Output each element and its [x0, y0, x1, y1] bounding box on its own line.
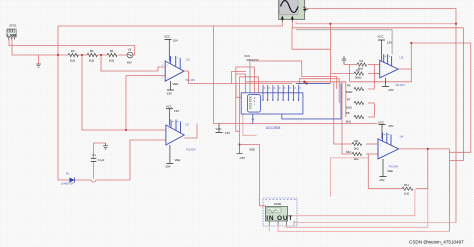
svg-text:1N4007GP: 1N4007GP [61, 182, 74, 186]
wire: scope T line [296, 22, 456, 24]
node right vertical junction [455, 23, 457, 25]
svg-text:1kΩ: 1kΩ [70, 59, 76, 63]
svg-text:ADC0808: ADC0808 [266, 126, 280, 130]
wire: band line 2 [236, 83, 292, 85]
svg-text:R1: R1 [110, 49, 114, 53]
wire: ADC pin stub 1 [245, 74, 247, 93]
wire: U2 output [184, 124, 197, 139]
svg-text:50kΩ: 50kΩ [346, 90, 353, 94]
svg-text:U2: U2 [185, 123, 189, 127]
svg-text:VCC: VCC [244, 54, 250, 58]
resistor R7 [346, 97, 364, 109]
svg-text:VCC: VCC [378, 34, 384, 38]
svg-text:2: 2 [162, 77, 163, 79]
wire: ADC pin stub 2 [254, 67, 256, 93]
resistor R4 [357, 59, 367, 70]
svg-text:R8: R8 [346, 111, 350, 115]
wire: R6 R7 R8 right ends to summing vertical [368, 65, 374, 90]
svg-text:15V: 15V [387, 40, 392, 44]
capacitor C1 [91, 153, 105, 162]
svg-text:C1: C1 [92, 153, 96, 157]
svg-text:741-DIV: 741-DIV [185, 78, 195, 82]
svg-text:U3: U3 [400, 55, 404, 59]
blue wire from ADC going right [296, 82, 331, 84]
node band dot 1 [303, 81, 305, 83]
svg-text:V1: V1 [128, 48, 132, 52]
wire: output up to top line y43 [411, 43, 471, 152]
svg-text:1kΩ: 1kΩ [109, 59, 115, 63]
wire: right vertical x463.5 [449, 28, 463, 161]
resistor R9 [352, 139, 362, 150]
svg-text:IN OUT: IN OUT [266, 215, 292, 222]
svg-text:741-DIV: 741-DIV [388, 164, 398, 168]
wire: R4 to U3 input [368, 64, 380, 66]
wire: XFG1 out1 to top rail [9, 38, 135, 56]
wire: band line 1 to R8 [246, 82, 346, 117]
svg-text:R2: R2 [90, 49, 94, 53]
wire: R5 row to U3 [368, 73, 380, 75]
wire: bottom nested bus lines [278, 226, 449, 232]
wire: U1 inv input to U2 node [126, 76, 165, 131]
svg-text:741-DIV: 741-DIV [186, 148, 196, 152]
node dot junction x82 [81, 54, 83, 56]
wire: XFG1 out2 to resistor chain [12, 38, 68, 56]
diode D1 [61, 172, 75, 186]
wire: vertical to R10 [342, 82, 352, 154]
wire: feedback left vertical [349, 65, 351, 82]
node U3 output junction [410, 42, 412, 44]
svg-text:XWM1: XWM1 [274, 202, 282, 206]
wire: R1 to V1 segment [118, 54, 127, 56]
wire: U4 output [399, 149, 450, 232]
wire: R10 to U4 input [366, 153, 378, 155]
wire: long right verticals [455, 9, 457, 223]
blue EOC loop right of ADC [282, 83, 341, 119]
node top line junction x330 [329, 23, 331, 25]
wire: VCC rail to ADC area [214, 26, 378, 124]
VEE symbol U1 [166, 81, 178, 96]
wire: R2-R1 node to U1 upper input [101, 55, 165, 71]
wire: ground stub at x38.5 [38, 55, 40, 64]
svg-text:U1: U1 [186, 57, 190, 61]
oscilloscope XSC1 [279, 0, 308, 22]
svg-text:5kΩ: 5kΩ [346, 120, 351, 124]
svg-text:VEE: VEE [175, 158, 181, 162]
node dot junction x58 [57, 54, 59, 56]
ADC VCC symbol [244, 54, 259, 93]
wire: scope B branch down to VCC rail [292, 28, 330, 49]
op-amp U3 [380, 54, 405, 87]
svg-text:CSDN @weixin_47510497: CSDN @weixin_47510497 [409, 240, 464, 245]
svg-text:U4: U4 [400, 135, 404, 139]
svg-text:1kΩ: 1kΩ [354, 157, 359, 161]
VCC symbol U3 [378, 34, 393, 60]
wire: U3 feedback bottom run [350, 43, 412, 82]
wire: box pin stub [268, 226, 270, 232]
wire: U1 output to ADC input [184, 71, 241, 97]
svg-text:5: 5 [172, 58, 173, 60]
wire: R3-R2 node down to U2 + input [82, 55, 166, 130]
node U4 output junction [427, 148, 429, 150]
wire: segment between resistors [78, 54, 87, 56]
wire: VCC line to DAC row R6 [252, 61, 337, 89]
svg-text:1MΩ: 1MΩ [346, 105, 352, 109]
VEE symbol U4 [379, 159, 394, 182]
svg-text:R7: R7 [347, 97, 351, 101]
wire: vertical x239.5 to VEE node [239, 77, 241, 145]
resistor R5 [354, 69, 364, 80]
resistor R10 [346, 150, 362, 161]
svg-text:15V: 15V [388, 124, 393, 128]
node dot junction x101 [100, 54, 102, 56]
svg-text:-15V: -15V [388, 88, 394, 92]
op-amp U1 [162, 56, 195, 82]
svg-text:VCC: VCC [166, 104, 172, 108]
node VEE junction [238, 143, 240, 145]
svg-text:15V: 15V [174, 109, 179, 113]
wire: staircase stub x231.5 [232, 72, 247, 84]
svg-text:Ext: Ext [303, 6, 307, 9]
ground symbol at capacitor [103, 143, 108, 149]
wire: line to DAC row R7 [300, 79, 340, 103]
capacitor C1 branch [93, 161, 95, 178]
svg-text:VCC: VCC [378, 120, 384, 124]
VEE symbol U3 [382, 78, 394, 92]
wire: R9 R10 to U4 inputs [366, 143, 378, 145]
resistor R6 [346, 83, 364, 94]
svg-text:R5: R5 [356, 69, 360, 73]
svg-text:XFG1: XFG1 [9, 24, 17, 28]
wire: R4 feedback loop U3 [344, 64, 357, 66]
svg-text:R3: R3 [71, 49, 75, 53]
wire: x330 vertical from top line [329, 24, 331, 84]
resistor R11 [402, 183, 413, 196]
svg-text:-15V: -15V [165, 165, 171, 169]
op-amp U2 [166, 120, 196, 152]
wire: R11 right to output [416, 149, 428, 189]
wire: staircase line y67 [236, 66, 255, 68]
svg-text:R10: R10 [346, 150, 352, 154]
svg-text:15V: 15V [225, 131, 230, 135]
svg-text:50kΩ: 50kΩ [355, 76, 362, 80]
wire: staircase verticals left of ADC [236, 73, 246, 75]
op-amp U4 [378, 133, 404, 169]
svg-text:VEE: VEE [173, 82, 179, 86]
svg-text:-15V: -15V [379, 178, 385, 182]
wire: bottom bus line 2 [286, 226, 428, 228]
resistor R8 [346, 111, 364, 123]
VCC symbol U4 [378, 120, 394, 139]
wire: node to VEE and IN-OUT box [240, 145, 266, 206]
wire: R8 right end [368, 103, 374, 117]
ADC0808 [241, 85, 303, 130]
wire: R7 right end [368, 102, 374, 104]
svg-text:VCC: VCC [216, 127, 222, 131]
svg-text:R11: R11 [404, 183, 409, 187]
wire: R2 to R1 segment [97, 54, 107, 56]
svg-text:15V: 15V [254, 58, 259, 62]
svg-text:R4: R4 [360, 59, 364, 63]
wire: to R5 row [330, 73, 354, 75]
svg-text:VCC: VCC [164, 35, 170, 39]
wire: staircase line y76.8 [240, 76, 259, 78]
svg-text:R6: R6 [347, 83, 351, 87]
wire: R11 feedback loop [368, 154, 402, 189]
source V1 [127, 48, 133, 65]
wire: line to IN-OUT right area [331, 158, 369, 197]
IN OUT instrument XWM1 [263, 198, 297, 226]
svg-text:0.1µF: 0.1µF [98, 158, 105, 162]
svg-text:3: 3 [162, 65, 163, 67]
svg-text:1kΩ: 1kΩ [89, 59, 95, 63]
svg-text:1kΩ: 1kΩ [354, 147, 359, 151]
resistor R2 [87, 49, 97, 63]
wire: top line A to scope A [58, 21, 282, 27]
VCC symbol U1 [164, 35, 178, 62]
ground symbol at U3 input (inverted) [342, 57, 347, 65]
wire: bottom bus line 4 [293, 189, 415, 216]
svg-text:1: 1 [177, 58, 178, 60]
svg-text:-15V: -15V [166, 92, 172, 96]
resistor R1 [107, 49, 117, 63]
svg-text:741-DIV: 741-DIV [395, 83, 405, 87]
wire: bottom bus line 3 [294, 223, 456, 226]
VCC symbol mid [216, 124, 231, 136]
svg-text:R9: R9 [355, 139, 359, 143]
wire: left main vertical x58 [57, 26, 59, 180]
wire: ADC pin stub 3 [258, 77, 260, 93]
resistor R3 [68, 49, 78, 63]
svg-text:15V: 15V [173, 39, 178, 43]
wire: scope ext trig line top [306, 9, 457, 12]
wire: ADC bottom pin loop [243, 114, 257, 135]
VCC symbol U2 [166, 104, 179, 125]
VEE symbol near ADC [237, 145, 256, 161]
wire: vertical x427.8 to bottom bus [427, 189, 429, 228]
svg-text:60V: 60V [127, 60, 132, 64]
wire: scope B line going right [292, 21, 463, 28]
VEE symbol U2 [165, 145, 181, 169]
svg-text:D1: D1 [66, 172, 70, 176]
wire: vertical to R9 [334, 82, 352, 144]
svg-text:IN5: IN5 [249, 108, 252, 110]
svg-text:VEE: VEE [387, 169, 393, 173]
svg-text:-15V: -15V [239, 156, 245, 160]
svg-text:1kΩ: 1kΩ [404, 192, 409, 196]
node band dot 2 [305, 82, 307, 84]
node dot junction x126 y130 [125, 129, 127, 131]
ground symbol left [36, 64, 41, 67]
wire: U3 output [398, 68, 411, 70]
svg-text:VEE: VEE [249, 148, 255, 152]
wire: diode line to U2 inv input [58, 179, 70, 181]
function generator XFG1 [7, 24, 17, 40]
wire: vertical x235.8 down left of ADC [236, 67, 240, 131]
